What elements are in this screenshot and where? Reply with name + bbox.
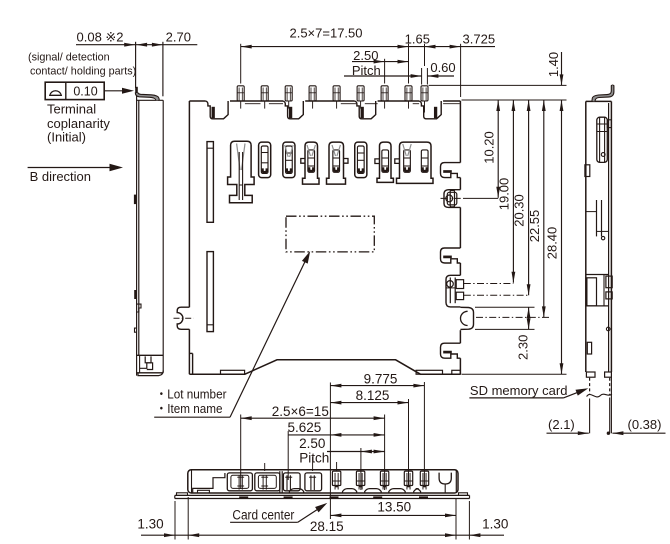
svg-text:10.20: 10.20 <box>481 131 496 164</box>
svg-text:(signal/ detection: (signal/ detection <box>28 52 110 64</box>
svg-text:2.5×6=15: 2.5×6=15 <box>272 404 329 419</box>
svg-text:Card center: Card center <box>232 507 294 522</box>
svg-text:SD memory card: SD memory card <box>470 383 568 398</box>
svg-text:9.775: 9.775 <box>364 371 398 386</box>
svg-text:1.40: 1.40 <box>546 52 561 77</box>
svg-text:2.50: 2.50 <box>299 436 325 451</box>
svg-text:2.70: 2.70 <box>166 30 191 45</box>
svg-text:contact/ holding parts): contact/ holding parts) <box>30 66 136 78</box>
svg-text:28.15: 28.15 <box>310 519 344 534</box>
svg-text:1.65: 1.65 <box>405 31 430 46</box>
svg-text:2.30: 2.30 <box>515 335 530 360</box>
svg-text:3.725: 3.725 <box>463 31 496 46</box>
svg-text:2.50: 2.50 <box>353 48 378 63</box>
svg-text:0.08 ※2: 0.08 ※2 <box>77 30 124 45</box>
svg-text:5.625: 5.625 <box>288 420 322 435</box>
svg-text:・Item name: ・Item name <box>156 401 223 416</box>
svg-text:8.125: 8.125 <box>356 388 390 403</box>
svg-text:B direction: B direction <box>30 169 91 184</box>
svg-text:2.5×7=17.50: 2.5×7=17.50 <box>289 26 362 41</box>
svg-text:0.60: 0.60 <box>430 60 455 75</box>
svg-text:Terminal: Terminal <box>47 102 96 117</box>
svg-text:13.50: 13.50 <box>377 499 411 514</box>
svg-text:Pitch: Pitch <box>299 450 329 465</box>
svg-text:1.30: 1.30 <box>482 516 508 531</box>
svg-text:22.55: 22.55 <box>527 210 542 243</box>
svg-text:・Lot number: ・Lot number <box>156 386 228 401</box>
svg-text:28.40: 28.40 <box>545 227 560 260</box>
svg-text:20.30: 20.30 <box>512 194 527 227</box>
svg-text:(0.38): (0.38) <box>628 417 662 432</box>
svg-text:(2.1): (2.1) <box>548 417 575 432</box>
svg-text:1.30: 1.30 <box>137 516 163 531</box>
svg-text:19.00: 19.00 <box>497 178 512 211</box>
svg-text:(Initial): (Initial) <box>47 130 86 145</box>
svg-text:0.10: 0.10 <box>73 85 97 99</box>
